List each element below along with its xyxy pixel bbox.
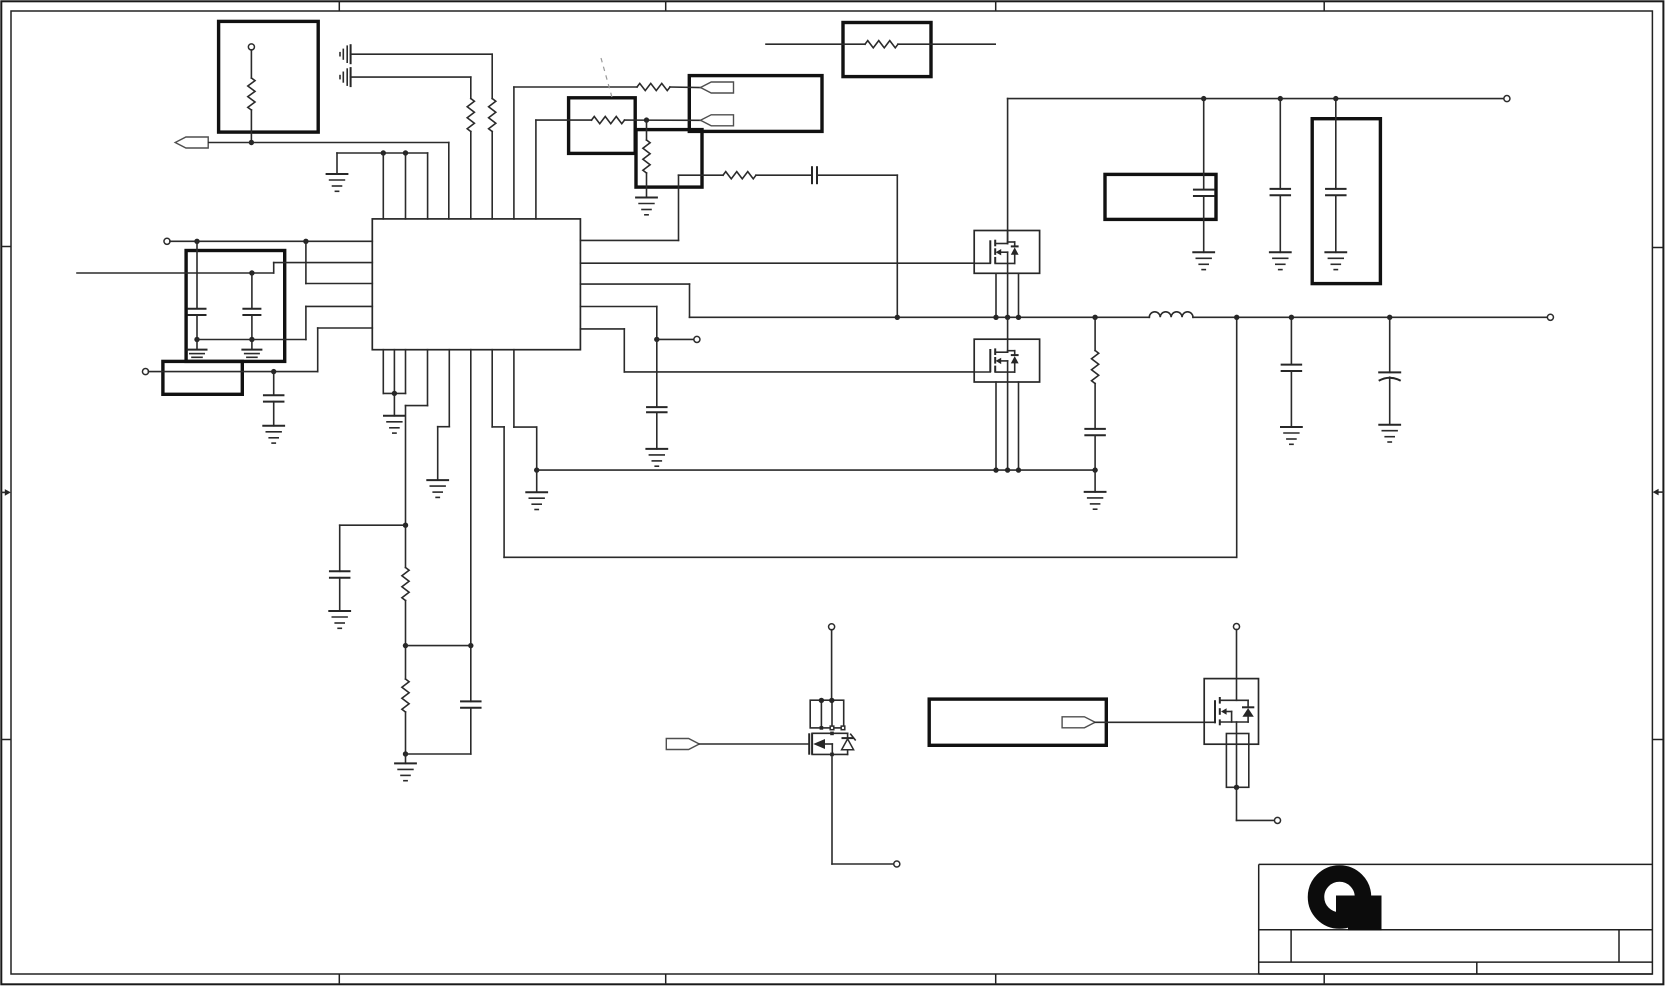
capacitor C4 xyxy=(263,395,285,401)
component box B8 (capacitor pair box) xyxy=(186,251,285,362)
wire xyxy=(438,426,450,428)
component box B10 (bottom flag box) xyxy=(929,699,1106,745)
title block row line xyxy=(1259,961,1653,963)
wire xyxy=(351,53,493,55)
transistor Q2 channel segments xyxy=(994,348,996,372)
border zone tick bottom 4 xyxy=(1323,974,1325,983)
transistor Q1 bottom stub xyxy=(995,262,1015,264)
wire xyxy=(405,754,407,763)
wire xyxy=(405,525,407,567)
border zone tick bottom 3 xyxy=(995,974,997,983)
transistor Q1 body diode connection xyxy=(1008,242,1015,263)
wire xyxy=(336,153,338,174)
wire xyxy=(513,87,515,219)
wire xyxy=(339,578,341,611)
node junction xyxy=(1016,315,1021,320)
wire xyxy=(318,327,373,329)
wire xyxy=(405,153,407,219)
wire xyxy=(1279,99,1281,189)
title block logo row bottom line xyxy=(1259,929,1653,931)
wire xyxy=(250,110,252,143)
transistor Q3 channel bar xyxy=(811,733,813,754)
wire xyxy=(535,120,537,219)
node junction xyxy=(644,117,649,122)
wire xyxy=(383,392,405,394)
pin circle xyxy=(694,336,700,342)
wire xyxy=(766,43,865,45)
wire xyxy=(1018,382,1020,470)
title block top line xyxy=(1259,863,1653,865)
wire xyxy=(406,645,471,647)
wire xyxy=(756,174,812,176)
wire xyxy=(503,427,505,557)
company logo xyxy=(1316,874,1382,931)
wire xyxy=(448,143,450,219)
resistor R1 xyxy=(248,78,255,110)
ground G14 xyxy=(1269,252,1292,269)
wire xyxy=(492,426,504,428)
component box B9 (small box) xyxy=(163,361,242,394)
ground G5 xyxy=(525,492,548,509)
transistor Q2 source vertical xyxy=(1007,361,1009,382)
wire xyxy=(1236,722,1238,787)
wire xyxy=(896,175,898,317)
wire xyxy=(196,315,198,340)
node junction xyxy=(829,698,834,703)
pin square xyxy=(830,732,834,736)
border zone tick top 2 xyxy=(665,1,667,11)
ground G10 xyxy=(262,426,285,443)
wire xyxy=(491,132,493,219)
wire xyxy=(337,152,428,154)
wire xyxy=(820,700,822,728)
wire xyxy=(405,646,407,679)
wire xyxy=(209,142,449,144)
transistor Q2 body diode connection xyxy=(1008,351,1015,372)
node junction xyxy=(403,523,408,528)
transistor Q2 drain lead xyxy=(1007,339,1009,352)
pin circle xyxy=(829,624,835,630)
transistor Q1 drain stub xyxy=(995,243,1007,245)
node junction xyxy=(993,315,998,320)
component box B4 (flag box) xyxy=(689,76,822,132)
wire xyxy=(1007,382,1009,470)
transistor Q4 body diode xyxy=(1242,708,1253,717)
signal flag F2 xyxy=(701,82,734,93)
pin circle xyxy=(1274,817,1280,823)
ground G6 xyxy=(1084,492,1107,509)
transistor Q1 package box xyxy=(974,231,1039,274)
capacitor C13 (polarized) xyxy=(1378,372,1401,380)
wire xyxy=(536,470,538,492)
node junction xyxy=(819,698,824,703)
component box B5 (top resistor box) xyxy=(843,23,931,77)
wire xyxy=(1231,712,1233,723)
wire xyxy=(196,340,198,350)
wire xyxy=(995,382,997,470)
transistor Q2 body diode xyxy=(1011,356,1019,363)
pin circle xyxy=(1504,96,1510,102)
wire xyxy=(340,524,406,526)
wire xyxy=(393,350,395,394)
wire xyxy=(679,174,724,176)
transistor Q2 bottom stub xyxy=(995,371,1015,373)
wire xyxy=(831,700,833,728)
wire xyxy=(1094,435,1096,470)
wire xyxy=(656,414,658,449)
ground G9 xyxy=(241,350,262,358)
transistor Q3 bottom edge xyxy=(812,753,848,755)
node junction xyxy=(654,337,659,342)
transistor Q4 package box xyxy=(1204,679,1258,745)
node junction xyxy=(468,643,473,648)
wire xyxy=(1290,317,1292,364)
wire xyxy=(1290,371,1292,427)
transistor Q4 gate bar xyxy=(1214,700,1216,723)
node junction xyxy=(1289,315,1294,320)
ground G1 xyxy=(326,174,349,191)
title block bottom line xyxy=(1259,973,1653,975)
node junction xyxy=(895,315,900,320)
node junction xyxy=(403,150,408,155)
transistor Q1 drain lead xyxy=(1007,231,1009,244)
wire xyxy=(306,305,372,307)
wire xyxy=(406,753,471,755)
wire xyxy=(273,263,275,273)
wire xyxy=(382,350,384,394)
ground G8 xyxy=(187,350,208,358)
signal flag F4 xyxy=(666,739,699,750)
wire xyxy=(898,43,995,45)
wire xyxy=(305,306,307,339)
border zone tick left 1 xyxy=(1,246,11,248)
wire xyxy=(536,427,538,470)
resistor R3 xyxy=(489,99,496,132)
title block divider xyxy=(1476,962,1478,974)
ground G7 xyxy=(645,449,668,466)
wire xyxy=(1203,196,1205,252)
ground G4 xyxy=(426,480,449,497)
transistor Q2 source arrow xyxy=(996,358,1002,364)
border zone tick bottom 2 xyxy=(665,974,667,983)
wire xyxy=(470,132,472,219)
transistor Q3 body diode xyxy=(842,739,854,750)
wire xyxy=(678,175,680,240)
pin square xyxy=(820,726,824,730)
wire xyxy=(580,328,624,330)
ground G16 xyxy=(1280,427,1303,444)
wire xyxy=(1237,819,1275,821)
wire xyxy=(831,744,833,754)
transistor Q4 bottom stub xyxy=(1220,721,1248,723)
wire xyxy=(405,406,407,526)
wire xyxy=(831,754,833,864)
capacitor C11 (in B7) xyxy=(1325,189,1347,195)
resistor R11 (snubber) xyxy=(1092,351,1099,384)
pin circle of R1 xyxy=(248,44,254,50)
node junction xyxy=(1005,467,1010,472)
node junction xyxy=(1005,315,1010,320)
transistor Q4 channel segments xyxy=(1219,697,1221,725)
wire xyxy=(251,315,253,340)
border zone tick bottom 1 xyxy=(338,974,340,983)
node junction xyxy=(271,369,276,374)
node junction xyxy=(249,270,254,275)
wire xyxy=(1389,377,1391,425)
transistor Q1 body diode cathode bar xyxy=(1011,245,1019,247)
wire xyxy=(847,733,849,738)
wire xyxy=(1247,700,1249,707)
capacitor C12 xyxy=(1281,365,1303,371)
ground G12 xyxy=(394,763,417,780)
wire xyxy=(1203,99,1205,190)
border zone tick right 1 xyxy=(1652,247,1663,249)
wire xyxy=(1094,317,1096,350)
transistor Q4 source arrow xyxy=(1221,708,1227,714)
ground G17 xyxy=(1378,425,1401,442)
transistor Q2 package box xyxy=(974,339,1039,382)
wire xyxy=(196,241,198,308)
pin square xyxy=(830,753,834,757)
node junction xyxy=(403,751,408,756)
pin circle xyxy=(1233,624,1239,630)
title block left edge xyxy=(1258,864,1260,974)
wire xyxy=(825,743,832,745)
border mid-left arrow xyxy=(1,489,11,496)
capacitor C5 xyxy=(329,571,351,577)
wire xyxy=(1389,317,1391,372)
wire xyxy=(427,153,429,219)
wire xyxy=(470,77,472,98)
wire xyxy=(1236,317,1238,557)
wire xyxy=(405,601,407,646)
pin square xyxy=(830,726,834,730)
wire xyxy=(817,174,897,176)
ground G2 xyxy=(635,198,658,215)
component box B7 (tall capacitor box) xyxy=(1312,119,1380,284)
transistor Q2 body diode cathode bar xyxy=(1011,354,1019,356)
wire xyxy=(657,338,694,340)
wire xyxy=(406,405,428,407)
chassis ground CG1 xyxy=(340,44,351,64)
border zone tick top 3 xyxy=(995,1,997,11)
capacitor C8 (snubber) xyxy=(1084,429,1106,435)
transistor Q1 source vertical xyxy=(1007,252,1009,273)
wire xyxy=(624,371,974,373)
node junction xyxy=(194,239,199,244)
wire xyxy=(405,350,407,394)
transistor Q4 drain stub xyxy=(1220,699,1248,701)
capacitor C3 xyxy=(242,309,261,315)
wire xyxy=(580,239,678,241)
wire xyxy=(470,646,472,702)
resistor R4 xyxy=(637,83,670,90)
resistor R9 xyxy=(402,568,409,601)
wire xyxy=(1247,717,1249,722)
wire xyxy=(351,76,471,78)
transistor Q1 channel segments xyxy=(994,240,996,264)
resistor R2 xyxy=(467,99,474,132)
wire xyxy=(1335,195,1337,252)
ground G15 xyxy=(1324,252,1347,269)
transistor Q3 body diode cathode bar xyxy=(842,737,854,739)
resistor R5 xyxy=(592,117,625,124)
wire (phase bus) xyxy=(690,316,1150,318)
wire xyxy=(1094,470,1096,492)
transistor Q3 schottky tick xyxy=(851,734,856,740)
wire xyxy=(1007,273,1009,317)
capacitor C2 xyxy=(188,309,207,315)
border zone tick top 4 xyxy=(1323,1,1325,11)
wire xyxy=(514,426,537,428)
wire xyxy=(514,86,637,88)
transistor Q2 gate bar xyxy=(989,349,991,372)
signal flag F3 xyxy=(701,115,734,126)
wire xyxy=(448,350,450,427)
wire xyxy=(306,283,372,285)
pin circle xyxy=(142,369,148,375)
transistor Q3 source arrow xyxy=(813,739,825,749)
wire xyxy=(623,329,625,372)
wire xyxy=(1018,273,1020,317)
transistor Q1 source stub xyxy=(1001,251,1007,253)
transistor Q1 gate lead xyxy=(974,262,990,264)
transistor Q3 pin tie box xyxy=(810,700,844,728)
capacitor C9 (in B6) xyxy=(1193,190,1215,196)
wire xyxy=(170,240,372,242)
transistor Q2 gate lead xyxy=(974,371,990,373)
wire xyxy=(77,272,274,274)
annotation dashed line xyxy=(601,58,613,101)
wire xyxy=(646,173,648,198)
transistor Q3 top edge xyxy=(812,732,848,734)
node junction xyxy=(1234,315,1239,320)
wire xyxy=(656,339,658,407)
inductor L1 xyxy=(1149,312,1193,317)
resistor R7 (in B5) xyxy=(865,41,898,48)
component box B2 (resistor box) xyxy=(569,98,636,154)
node junction xyxy=(249,140,254,145)
wire xyxy=(317,328,319,372)
component box B1 (top-left) xyxy=(219,21,319,132)
wire xyxy=(427,350,429,406)
transistor Q2 source stub xyxy=(1001,360,1007,362)
border zone tick left 2 xyxy=(1,739,11,741)
pin circle xyxy=(164,238,170,244)
node junction xyxy=(1201,96,1206,101)
title block divider xyxy=(1618,930,1620,962)
wire (output rail) xyxy=(1193,316,1548,318)
resistor R8 xyxy=(723,172,756,179)
wire xyxy=(1095,721,1215,723)
wire xyxy=(580,262,974,264)
node junction xyxy=(534,467,539,472)
node junction xyxy=(1234,785,1239,790)
wire xyxy=(1007,317,1009,339)
capacitor C7 xyxy=(646,407,668,412)
wire xyxy=(625,119,701,121)
wire xyxy=(491,54,493,98)
wire xyxy=(197,339,306,341)
pin square xyxy=(841,726,845,730)
wire xyxy=(273,402,275,426)
pin circle xyxy=(894,861,900,867)
wire xyxy=(251,273,253,309)
pin circle xyxy=(1547,314,1553,320)
ground G3 xyxy=(383,416,406,433)
wire xyxy=(831,630,833,701)
resistor R10 xyxy=(402,679,409,712)
node junction xyxy=(1092,315,1097,320)
node junction xyxy=(194,337,199,342)
wire xyxy=(470,708,472,754)
signal flag F5 xyxy=(1062,717,1095,728)
node junction xyxy=(392,391,397,396)
chassis ground CG2 xyxy=(340,67,351,87)
wire xyxy=(670,86,701,89)
wire xyxy=(847,750,849,755)
node junction xyxy=(303,239,308,244)
node junction xyxy=(1016,467,1021,472)
wire xyxy=(251,340,253,350)
wire xyxy=(405,712,407,754)
capacitor C6 xyxy=(460,701,482,707)
wire xyxy=(689,284,691,317)
wire xyxy=(437,427,439,480)
wire xyxy=(995,273,997,317)
wire xyxy=(536,119,592,121)
wire xyxy=(1335,99,1337,189)
node junction xyxy=(381,150,386,155)
wire xyxy=(504,556,1237,558)
wire (input rail) xyxy=(1008,98,1505,100)
ground G11 xyxy=(328,611,351,628)
wire xyxy=(646,120,648,140)
node junction xyxy=(403,643,408,648)
wire xyxy=(148,371,317,373)
capacitor C10 xyxy=(1270,189,1292,195)
border zone tick top 1 xyxy=(338,1,340,11)
node junction xyxy=(1278,96,1283,101)
wire xyxy=(1279,195,1281,252)
node junction xyxy=(1333,96,1338,101)
wire xyxy=(273,372,275,396)
wire xyxy=(1007,99,1009,244)
wire xyxy=(1236,787,1238,820)
wire xyxy=(274,262,373,264)
wire xyxy=(656,307,658,340)
wire xyxy=(699,743,809,745)
transistor Q4 body diode cathode bar xyxy=(1242,706,1254,708)
capacitor C1 xyxy=(812,166,817,184)
wire xyxy=(537,469,1095,471)
controller IC U1 xyxy=(372,219,580,350)
node junction xyxy=(993,467,998,472)
node junction xyxy=(1092,467,1097,472)
resistor R6 xyxy=(643,140,650,173)
component box B3 (resistor box) xyxy=(636,130,702,188)
transistor Q4 pin tie box xyxy=(1226,734,1248,788)
wire xyxy=(513,350,515,427)
transistor Q1 gate bar xyxy=(989,240,991,263)
transistor Q1 body diode xyxy=(1011,247,1019,254)
wire xyxy=(491,350,493,427)
transistor Q1 source arrow xyxy=(996,249,1002,255)
component box B6 (capacitor box) xyxy=(1105,174,1216,219)
wire xyxy=(1236,630,1238,701)
signal flag F1 xyxy=(175,137,208,148)
wire xyxy=(393,393,395,415)
